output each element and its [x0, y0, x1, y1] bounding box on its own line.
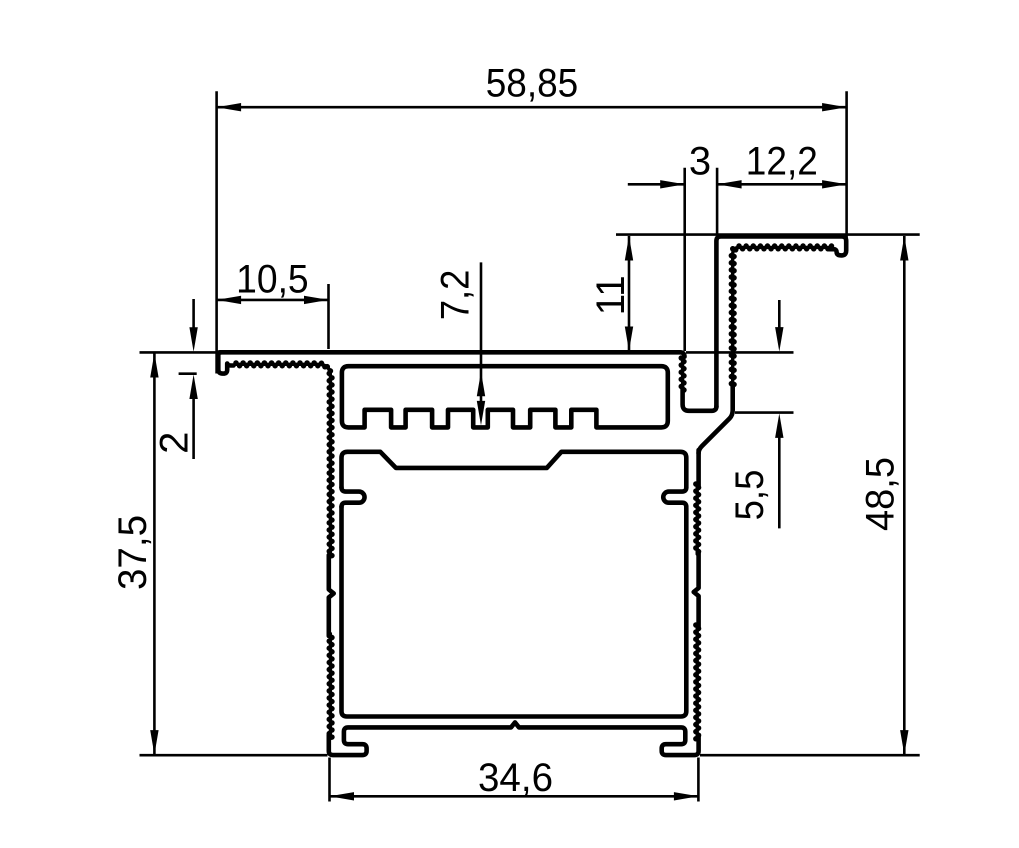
dimension 58,85	[217, 61, 847, 373]
profile: hook underside knurl + stem inner knurl	[733, 247, 832, 386]
svg-text:37,5: 37,5	[111, 515, 155, 590]
profile: groove bottom and right shoulder chamfer	[683, 385, 733, 453]
dimension 37,5	[111, 352, 328, 755]
profile: hook (glazing leg) outer	[716, 236, 846, 407]
left wall smooth segment with kink	[329, 555, 334, 636]
profile: top chamber with teeth	[342, 366, 668, 427]
dimension 48,5	[700, 236, 920, 755]
dimension 7,2	[434, 262, 486, 425]
dimension 10,5	[217, 258, 329, 349]
svg-text:11: 11	[589, 275, 633, 315]
profile: top plate right edge knurl	[681, 358, 684, 390]
svg-text:3: 3	[689, 139, 711, 183]
svg-text:34,6: 34,6	[478, 756, 553, 800]
svg-text:10,5: 10,5	[236, 258, 309, 302]
dimension 34,6	[330, 756, 699, 802]
profile: right wall outer knurl	[696, 484, 699, 554]
svg-text:5,5: 5,5	[728, 470, 772, 521]
svg-text:7,2: 7,2	[434, 270, 478, 321]
right wall smooth segments with kink	[696, 450, 701, 486]
profile: main chamber outline with trapezoid recess and side notches	[342, 452, 687, 717]
right wall notch	[663, 487, 686, 507]
svg-text:12,2: 12,2	[746, 139, 818, 183]
dimension 12,2	[717, 139, 847, 235]
profile: bottom plate, feet	[329, 722, 699, 755]
svg-text:48,5: 48,5	[859, 457, 903, 531]
left wall notch	[342, 487, 365, 507]
dimension 3	[628, 139, 711, 351]
dimension 11	[589, 235, 920, 351]
dimension 5,5	[686, 300, 794, 528]
dimension 2	[153, 299, 198, 459]
svg-text:58,85: 58,85	[486, 61, 579, 105]
svg-text:2: 2	[153, 432, 197, 454]
profile: top plate with left lip	[218, 352, 684, 373]
profile: flange underside knurl + left wall outer knurl	[236, 364, 330, 557]
